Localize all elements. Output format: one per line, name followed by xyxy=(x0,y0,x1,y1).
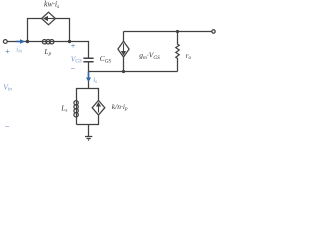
svg-text:ro: ro xyxy=(186,51,192,61)
svg-text:+: + xyxy=(70,41,75,50)
svg-text:CGS: CGS xyxy=(100,54,112,64)
svg-text:kw·is: kw·is xyxy=(44,0,59,10)
svg-text:iin: iin xyxy=(16,46,22,54)
svg-text:+: + xyxy=(5,47,10,56)
svg-text:−: − xyxy=(70,65,75,74)
svg-text:gm·VGS: gm·VGS xyxy=(139,51,160,61)
svg-text:Lp: Lp xyxy=(43,47,51,57)
svg-text:Vin: Vin xyxy=(3,82,12,92)
svg-text:−: − xyxy=(4,122,9,131)
svg-text:is: is xyxy=(93,77,97,85)
svg-text:k/n·ip: k/n·ip xyxy=(112,102,128,112)
svg-text:VGS: VGS xyxy=(71,54,82,64)
svg-text:Ls: Ls xyxy=(60,103,67,113)
